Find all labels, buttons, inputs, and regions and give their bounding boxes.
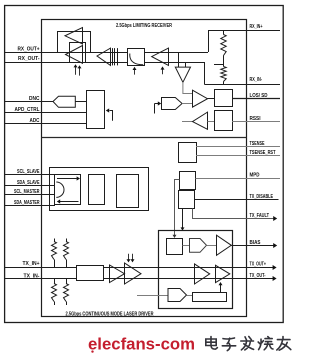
wire SCL_MASTER xyxy=(5,194,56,196)
wire TSENSE_RST xyxy=(196,155,280,157)
svg-text:BIAS: BIAS xyxy=(250,240,262,246)
wire TX_IN- / TX_OUT- xyxy=(5,278,274,280)
wire LOS apex to comparator xyxy=(183,82,192,93)
wire SDA_SLAVE xyxy=(5,185,56,187)
up-arrow under filter box xyxy=(134,69,136,75)
LOS buffer triangle (points right) xyxy=(193,90,208,107)
chinese char zi xyxy=(222,338,235,351)
wire pentagon to mod box xyxy=(187,295,193,297)
svg-text:RX_IN+: RX_IN+ xyxy=(250,24,263,30)
filter curve xyxy=(130,54,143,65)
IC boundary box xyxy=(42,20,247,317)
set arrow into APD box xyxy=(112,110,114,121)
LOS output box xyxy=(215,90,233,107)
wire RX_IN+ net xyxy=(208,30,280,32)
TSENSE box xyxy=(179,143,197,163)
bias pentagon xyxy=(190,239,207,253)
svg-text:TX_IN+: TX_IN+ xyxy=(23,261,40,267)
svg-text:RSSI: RSSI xyxy=(250,116,262,122)
arrow right inside box xyxy=(57,178,77,180)
gain down-arrow 2 xyxy=(132,254,134,261)
TX amp triangle 2 xyxy=(125,263,142,284)
I2C register box xyxy=(89,175,105,205)
input amplifier triangle xyxy=(152,48,169,65)
wire ADC xyxy=(5,123,88,125)
wire BIAS pin xyxy=(231,245,273,247)
section divider line xyxy=(42,137,247,139)
TX equalizer box xyxy=(77,266,104,281)
center tap tick xyxy=(214,64,224,66)
APD control DAC box xyxy=(87,91,105,129)
svg-text:ADC: ADC xyxy=(30,118,40,124)
svg-text:elecfans-com: elecfans-com xyxy=(88,335,195,354)
wire pentagon to LOS buffer xyxy=(182,103,192,105)
modulation pentagon xyxy=(168,289,187,302)
chinese char dian xyxy=(206,337,218,350)
APC box xyxy=(167,239,183,255)
modulation box xyxy=(193,293,227,302)
wire LOS/SD pin xyxy=(233,98,280,100)
wire pentagon to bias amp xyxy=(207,245,218,247)
chinese char fa xyxy=(241,337,254,350)
wire DNC xyxy=(5,101,88,103)
wire modulation input xyxy=(137,295,168,297)
resistor R1 RX termination top xyxy=(223,31,225,35)
gain down-arrow 1 xyxy=(128,254,130,261)
tap top wire to LOS detector xyxy=(178,52,180,67)
bias amp triangle xyxy=(217,235,232,255)
feedback loop rect bottom buffer xyxy=(70,43,86,63)
squelch up-arrow 1 xyxy=(75,67,77,75)
chinese char you xyxy=(277,337,291,351)
wire RX_OUT- chain bottom xyxy=(5,62,205,64)
up-arrow under input amplifier xyxy=(162,68,164,74)
I2C container box xyxy=(50,168,149,211)
LOS detector triangle (points down) xyxy=(175,67,190,82)
wire TX_DISABLE down to laser box xyxy=(182,209,184,229)
svg-text:RX_IN-: RX_IN- xyxy=(250,77,263,83)
wire TX_FAULT routing xyxy=(193,209,274,219)
tap bottom wire to LOS detector xyxy=(185,62,187,67)
filter box xyxy=(128,49,145,66)
MPD box xyxy=(180,172,196,190)
I2C passthrough box xyxy=(55,175,81,205)
RSSI box xyxy=(215,111,233,131)
chinese char shao xyxy=(258,337,273,350)
svg-text:TX_OUT+: TX_OUT+ xyxy=(250,261,267,267)
svg-text:RX_OUT+: RX_OUT+ xyxy=(18,46,40,52)
wire RX_IN- net xyxy=(205,84,281,86)
TX_DISABLE box xyxy=(179,191,195,209)
TX amp triangle 1 xyxy=(110,265,125,283)
wire mod box up to driver xyxy=(220,284,222,293)
wire APD_CTRL xyxy=(5,112,88,114)
wire RSSI input stub xyxy=(182,121,193,123)
squelch up-arrow 2 xyxy=(79,68,81,76)
wire RX_OUT+ chain top xyxy=(5,52,209,54)
resistor R4 TX_IN+ top b xyxy=(66,239,68,242)
DAC pentagon LOS threshold xyxy=(162,98,183,110)
arrow left inside box xyxy=(60,201,79,203)
wire TSENSE xyxy=(196,146,280,148)
svg-text:2.5Gbps CONTINUOUS MODE LASER: 2.5Gbps CONTINUOUS MODE LASER DRIVER xyxy=(66,312,154,318)
laser driver box xyxy=(159,231,233,309)
arc inside passthrough box xyxy=(56,182,64,197)
set arrow into LOS pentagon xyxy=(154,104,156,114)
svg-text:SDA_SLAVE: SDA_SLAVE xyxy=(17,180,40,186)
op-amp output buffer bottom xyxy=(66,46,83,64)
wire MPD to APC down xyxy=(175,180,180,236)
svg-text:RX_OUT-: RX_OUT- xyxy=(18,56,40,62)
limiting amplifier triangle xyxy=(97,48,111,65)
logo dot under e xyxy=(91,350,93,352)
wire TX_IN+ / TX_OUT+ xyxy=(5,267,274,269)
outer border xyxy=(5,6,284,323)
RSSI amplifier triangle (points left) xyxy=(193,112,208,129)
op-amp output buffer top xyxy=(65,28,83,45)
resistor R5 TX_IN- bottom a xyxy=(54,279,56,284)
wire APC to bias pentagon xyxy=(183,245,190,247)
wire SCL_SLAVE xyxy=(5,174,56,176)
I2C memory box xyxy=(117,175,139,208)
limiting amplifier cascade bars xyxy=(112,48,114,65)
resistor R2 RX termination bottom xyxy=(221,67,226,82)
resistor R6 TX_IN- bottom b xyxy=(66,279,68,284)
DNC pentagon xyxy=(53,96,75,107)
svg-text:2.5Gbps LIMITING RECEIVER: 2.5Gbps LIMITING RECEIVER xyxy=(116,23,172,29)
TX driver triangle 2 xyxy=(216,265,230,282)
wire MPD xyxy=(196,178,281,180)
TX driver triangle 1 xyxy=(195,264,210,284)
wire RSSI pin xyxy=(232,121,280,123)
wire buffer to LOS box xyxy=(208,98,215,100)
wire TX_DISABLE pin xyxy=(195,199,279,201)
wire SDA_MASTER xyxy=(5,205,56,207)
resistor R3 TX_IN+ top a xyxy=(54,239,56,242)
wire RSSI amp to box xyxy=(208,121,215,123)
feedback loop rect top buffer xyxy=(58,32,91,53)
svg-text:MPD: MPD xyxy=(250,173,260,179)
